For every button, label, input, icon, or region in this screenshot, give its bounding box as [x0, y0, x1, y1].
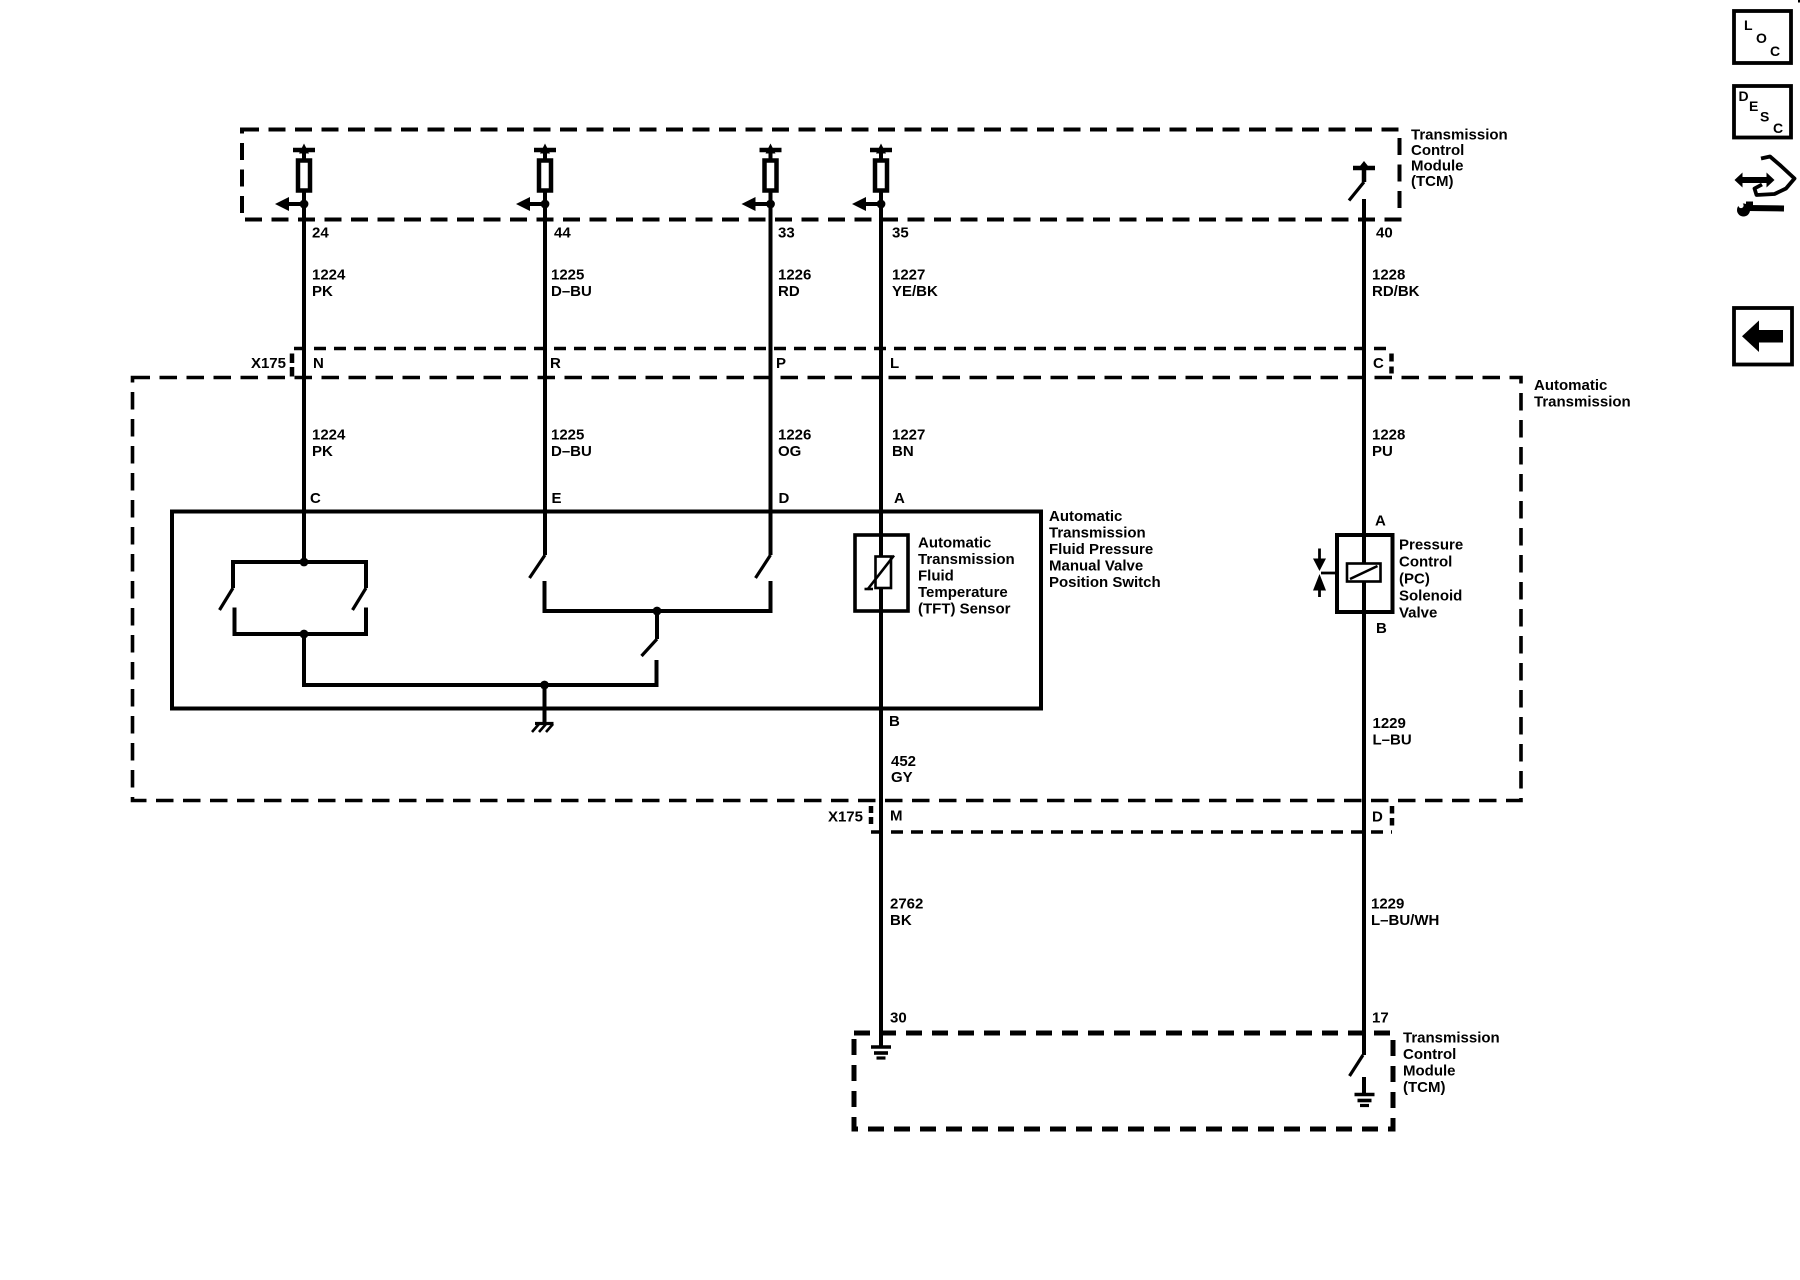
svg-text:Pressure: Pressure — [1399, 537, 1463, 554]
switch S1 bottom stub — [233, 608, 237, 637]
svg-text:Transmission: Transmission — [1049, 525, 1146, 542]
svg-text:Transmission: Transmission — [1403, 1030, 1500, 1047]
svg-text:1226: 1226 — [778, 267, 811, 284]
svg-text:PK: PK — [312, 283, 333, 300]
connector X175 (top) left boundary mark — [290, 354, 295, 378]
svg-text:(TCM): (TCM) — [1403, 1079, 1445, 1096]
TCM driver pin 44: junction dot — [541, 200, 550, 209]
wire label 1228 RD/BK — [1372, 267, 1420, 301]
svg-text:2762: 2762 — [890, 896, 923, 913]
PC solenoid coil element — [1347, 564, 1381, 582]
svg-text:E: E — [1749, 98, 1758, 114]
switch pair top rail — [233, 560, 366, 564]
svg-text:Module: Module — [1403, 1063, 1456, 1080]
svg-text:24: 24 — [312, 225, 329, 242]
svg-text:L–BU: L–BU — [1373, 732, 1412, 749]
node: common rail ground junction dot — [540, 681, 549, 690]
TCM internal switch pin 40: crossbar — [1353, 166, 1375, 171]
DESC hotlink icon — [1734, 86, 1791, 138]
svg-text:PU: PU — [1372, 443, 1393, 460]
svg-text:1229: 1229 — [1373, 715, 1406, 732]
svg-text:C: C — [1770, 43, 1780, 59]
TFT thermistor diagonal arrow — [868, 556, 895, 590]
svg-text:1224: 1224 — [312, 427, 346, 444]
svg-text:RD/BK: RD/BK — [1372, 283, 1420, 300]
wire label 1227 YE/BK — [892, 267, 938, 301]
svg-text:1227: 1227 — [892, 267, 925, 284]
svg-text:1225: 1225 — [551, 267, 584, 284]
wire 1228 RD-BK / PU / 1229 L-BU / L-BU-WH (TCM pin 40 through PC solenoid to TCM pin 17) — [1362, 199, 1366, 1055]
svg-text:D: D — [1372, 809, 1383, 826]
wire label 1226 OG (transmission side) — [778, 427, 811, 461]
svg-text:B: B — [889, 713, 900, 730]
svg-text:L: L — [1744, 17, 1753, 33]
svg-text:D–BU: D–BU — [551, 443, 592, 460]
wire label 2762 BK — [890, 896, 923, 930]
svg-text:Module: Module — [1411, 158, 1464, 175]
svg-text:M: M — [890, 808, 903, 825]
TCM driver pin 33: left signal arrow line — [756, 202, 771, 206]
svg-text:33: 33 — [778, 225, 795, 242]
page corner mark — [1798, 0, 1800, 3]
TCM driver pin 44: arrow tip above crossbar — [540, 144, 550, 154]
svg-text:BN: BN — [892, 443, 914, 460]
svg-text:Solenoid: Solenoid — [1399, 588, 1462, 605]
svg-text:D: D — [1739, 88, 1749, 104]
TCM driver pin 35: resistor element — [875, 161, 887, 191]
TCM internal switch pin 40: stub — [1362, 168, 1367, 182]
switch pair bottom rail — [235, 632, 367, 636]
TCM internal switch pin 40: nub above crossbar — [1360, 161, 1368, 166]
TCM driver pin 44: driver output symbol crossbar — [534, 148, 556, 153]
TCM driver pin 33: arrow tip above crossbar — [766, 144, 776, 154]
TCM driver pin 35: left signal arrowhead — [852, 197, 866, 211]
svg-text:Position Switch: Position Switch — [1049, 574, 1161, 591]
svg-text:S: S — [1760, 109, 1769, 125]
svg-text:(PC): (PC) — [1399, 571, 1430, 588]
svg-text:452: 452 — [891, 753, 916, 770]
TCM driver pin 33: resistor element — [765, 161, 777, 191]
Pressure Control (PC) Solenoid Valve box — [1337, 535, 1393, 612]
svg-text:1228: 1228 — [1372, 427, 1405, 444]
svg-text:(TCM): (TCM) — [1411, 173, 1453, 190]
svg-text:Control: Control — [1403, 1046, 1456, 1063]
TCM driver pin 33: junction dot — [766, 200, 775, 209]
TCM internal switch pin 40: blade — [1349, 182, 1364, 201]
svg-text:B: B — [1376, 620, 1387, 637]
wire label 1225 D-BU (transmission side) — [551, 427, 592, 461]
svg-text:BK: BK — [890, 912, 912, 929]
diagnostic information icon (double arrow, outline arrow, wrench) — [1735, 157, 1795, 217]
wire label 1229 L-BU — [1373, 715, 1412, 749]
position switch label — [1049, 508, 1161, 591]
svg-text:L–BU/WH: L–BU/WH — [1371, 912, 1439, 929]
wire 1226 RD/OG (TCM pin 33 to switch D) — [769, 192, 773, 555]
TCM driver pin 33: left signal arrowhead — [742, 197, 756, 211]
svg-text:1227: 1227 — [892, 427, 925, 444]
TCM driver pin 44: resistor element — [539, 161, 551, 191]
svg-text:P: P — [776, 355, 786, 372]
TCM driver pin 24: arrow tip above crossbar — [299, 144, 309, 154]
TCM driver pin 33: driver output symbol crossbar — [760, 148, 782, 153]
PC valve pintle upper stem — [1318, 549, 1321, 560]
svg-text:A: A — [894, 490, 905, 507]
wire label 1224 PK — [312, 267, 346, 301]
svg-text:PK: PK — [312, 443, 333, 460]
svg-text:Automatic: Automatic — [1534, 377, 1607, 394]
wire label 1228 PU (transmission side) — [1372, 427, 1405, 461]
svg-text:1225: 1225 — [551, 427, 584, 444]
svg-text:(TFT) Sensor: (TFT) Sensor — [918, 601, 1011, 618]
ground stub at TCM pin 17 — [1362, 1077, 1366, 1093]
switch S5 bottom stub — [769, 581, 773, 613]
svg-text:Automatic: Automatic — [1049, 508, 1122, 525]
wire label 1225 D-BU — [551, 267, 592, 301]
TCM driver pin 35: stub into resistor — [879, 150, 883, 160]
svg-text:N: N — [313, 355, 324, 372]
svg-text:C: C — [310, 490, 321, 507]
svg-text:E: E — [552, 490, 562, 507]
wire 1225 D-BU (TCM pin 44 to switch E) — [543, 192, 547, 555]
svg-text:Temperature: Temperature — [918, 584, 1008, 601]
svg-text:D: D — [779, 490, 790, 507]
svg-text:Transmission: Transmission — [1534, 394, 1631, 411]
chassis ground (switch assembly) — [532, 724, 554, 733]
ground at TCM pin 30 — [871, 1047, 891, 1058]
node: bottom rail junction dot — [300, 630, 309, 639]
svg-text:RD: RD — [778, 283, 800, 300]
TCM driver pin 35: arrow tip above crossbar — [876, 144, 886, 154]
connector X175 (top) right boundary mark — [1389, 354, 1394, 374]
PC valve pintle lower stem — [1318, 591, 1321, 598]
TCM internal switch pin 17 blade — [1350, 1055, 1364, 1076]
Pressure Control label — [1399, 537, 1463, 622]
PC valve pintle upper arrow (down) — [1313, 559, 1326, 572]
connector X175 (bottom) right boundary mark — [1390, 806, 1395, 827]
Automatic Transmission Fluid Temperature (TFT) Sensor box — [855, 535, 908, 611]
switch S3 bottom stub — [543, 581, 547, 613]
wire label 1227 BN (transmission side) — [892, 427, 925, 461]
svg-text:Control: Control — [1399, 554, 1452, 571]
svg-text:C: C — [1773, 120, 1783, 136]
svg-text:30: 30 — [890, 1010, 907, 1027]
PC solenoid coil diagonal — [1350, 566, 1378, 579]
TCM driver pin 33: stub into resistor — [769, 150, 773, 160]
switch S1 top stub — [231, 560, 235, 588]
Automatic Transmission label — [1534, 377, 1631, 411]
svg-text:1224: 1224 — [312, 267, 346, 284]
switch S1 blade — [220, 588, 234, 610]
svg-text:YE/BK: YE/BK — [892, 283, 938, 300]
svg-text:44: 44 — [554, 225, 571, 242]
switch S2 top stub — [364, 560, 368, 588]
TCM driver pin 24: resistor element — [298, 161, 310, 191]
svg-text:1228: 1228 — [1372, 267, 1405, 284]
connector X175 (top) dotted line — [294, 347, 1393, 351]
svg-text:1229: 1229 — [1371, 896, 1404, 913]
ground at TCM pin 17 — [1355, 1095, 1375, 1106]
svg-text:Transmission: Transmission — [1411, 127, 1508, 144]
wire label 452 GY — [891, 753, 916, 786]
TCM driver pin 24: left signal arrowhead — [275, 197, 289, 211]
svg-text:Transmission: Transmission — [918, 551, 1015, 568]
svg-text:OG: OG — [778, 443, 801, 460]
wire label 1226 RD — [778, 267, 811, 301]
TCM driver pin 35: left signal arrow line — [866, 202, 881, 206]
Transmission Control Module (TCM) box (bottom, dashed) — [854, 1033, 1393, 1129]
svg-text:X175: X175 — [251, 355, 286, 372]
ground tap wire — [543, 685, 547, 723]
PC valve link to box — [1321, 572, 1338, 575]
svg-text:L: L — [890, 355, 899, 372]
switch S2 blade — [353, 588, 367, 610]
svg-text:R: R — [550, 355, 561, 372]
PC valve pintle lower arrow (up) — [1313, 574, 1326, 591]
Automatic Transmission box (dashed) — [133, 378, 1522, 801]
svg-text:D–BU: D–BU — [551, 283, 592, 300]
wire from bottom rail to common rail — [304, 634, 657, 685]
TCM driver pin 35: driver output symbol crossbar — [870, 148, 892, 153]
switch S2 bottom stub — [364, 608, 368, 637]
svg-text:40: 40 — [1376, 225, 1393, 242]
wire 1227 YE-BK / BN / 452 GY / 2762 BK (TCM pin 35 through TFT sensor to ground pin 30) — [879, 192, 883, 1047]
TCM driver pin 44: left signal arrowhead — [516, 197, 530, 211]
wire 1224 PK (circuit from TCM pin 24 to switch C) — [302, 192, 306, 562]
TCM driver pin 44: left signal arrow line — [530, 202, 545, 206]
TCM (top) label — [1411, 127, 1508, 191]
TCM driver pin 24: junction dot — [300, 200, 309, 209]
svg-text:17: 17 — [1372, 1010, 1389, 1027]
TCM driver pin 44: stub into resistor — [543, 150, 547, 160]
switch S4 top stub (center) — [655, 611, 659, 639]
svg-text:Valve: Valve — [1399, 605, 1437, 622]
Automatic Transmission Fluid Pressure Manual Valve Position Switch box — [172, 512, 1041, 709]
TCM (bottom) label — [1403, 1030, 1500, 1097]
svg-text:O: O — [1756, 30, 1767, 46]
Transmission Control Module (TCM) connector box (top, dashed) — [242, 130, 1400, 220]
svg-text:X175: X175 — [828, 809, 863, 826]
TCM driver pin 24: left signal arrow line — [289, 202, 304, 206]
rail between E and D switches — [545, 609, 771, 613]
node: E-D rail junction dot — [653, 607, 662, 616]
TFT thermistor foot — [865, 588, 874, 591]
TCM driver pin 24: driver output symbol crossbar — [293, 148, 315, 153]
switch S3 blade (wire E) — [530, 555, 546, 578]
node: wire C junction dot — [300, 558, 309, 567]
switch S4 bottom stub — [655, 660, 659, 687]
wire label 1224 PK (transmission side) — [312, 427, 346, 461]
connector X175 (bottom) left boundary mark — [869, 806, 874, 827]
wire label 1229 L-BU/WH — [1371, 896, 1439, 930]
svg-text:Control: Control — [1411, 142, 1464, 159]
TCM driver pin 24: stub into resistor — [302, 150, 306, 160]
svg-text:Fluid: Fluid — [918, 568, 954, 585]
svg-text:1226: 1226 — [778, 427, 811, 444]
LOC hotlink icon — [1734, 11, 1791, 63]
svg-text:Manual Valve: Manual Valve — [1049, 558, 1143, 575]
back arrow icon — [1734, 308, 1792, 365]
svg-text:35: 35 — [892, 225, 909, 242]
svg-text:Fluid Pressure: Fluid Pressure — [1049, 541, 1153, 558]
TCM driver pin 35: junction dot — [877, 200, 886, 209]
TFT thermistor element — [876, 557, 892, 589]
svg-text:A: A — [1375, 513, 1386, 530]
switch S5 blade (wire D) — [756, 555, 771, 578]
TFT sensor label — [918, 535, 1015, 618]
svg-text:Automatic: Automatic — [918, 535, 991, 552]
svg-text:GY: GY — [891, 769, 913, 786]
switch S4 blade — [642, 639, 658, 656]
svg-text:C: C — [1373, 355, 1384, 372]
connector X175 (bottom) dotted line — [871, 830, 1392, 834]
